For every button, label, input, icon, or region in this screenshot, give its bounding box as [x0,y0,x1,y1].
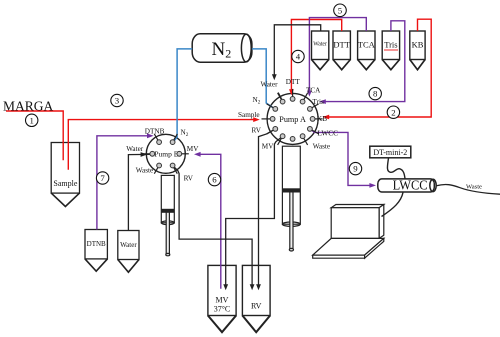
svg-text:5: 5 [338,5,343,15]
wire N2 blue to pump A [252,49,274,108]
container RV [242,265,270,332]
svg-text:Tris: Tris [313,98,325,106]
wire pump A RV to container black [259,129,276,287]
bottle Tris [382,31,399,70]
svg-text:Water: Water [126,145,144,153]
wire 5 TCA purple [309,18,366,93]
wire 9 LWCC purple [310,129,373,186]
svg-text:DT-mini-2: DT-mini-2 [373,148,407,157]
pump A ports [270,97,315,142]
svg-text:DTNB: DTNB [145,128,165,136]
svg-text:7: 7 [100,173,105,183]
cable DT-mini-2 to LWCC [387,158,405,179]
node 7 [96,172,108,184]
svg-text:Pump B: Pump B [154,150,178,159]
svg-text:1: 1 [29,115,33,125]
node 5 [334,4,347,17]
svg-text:Waste: Waste [136,166,153,174]
node 2 [387,106,399,118]
svg-text:DTNB: DTNB [87,240,106,248]
DT-mini-2 box [370,146,411,158]
waste tubing from LWCC [436,184,500,194]
svg-text:37°C: 37°C [214,305,231,314]
pump B port ticks [143,134,189,174]
pump A body [267,93,318,144]
cable LWCC to laptop [382,193,404,217]
svg-text:MV: MV [262,142,274,150]
container MV 37C [208,265,236,332]
N2 gas cylinder [192,34,252,62]
bottle KB [410,31,425,70]
svg-text:Water: Water [120,241,137,249]
svg-text:8: 8 [373,89,378,99]
svg-text:Sample: Sample [238,111,260,119]
laptop [313,205,384,259]
wire pump B RV to container black [173,166,253,288]
wire 7 DTNB purple [97,136,150,230]
svg-text:9: 9 [353,164,358,174]
svg-text:RV: RV [252,126,262,134]
svg-text:LWCC: LWCC [393,179,428,194]
pump B body [146,134,185,173]
svg-text:TCA: TCA [306,87,321,95]
wire DTT red [291,20,341,92]
syringe pump B [161,175,174,255]
svg-text:LWCC: LWCC [318,129,339,137]
bottle Water top [312,31,329,70]
bottle Water lower [118,231,139,273]
svg-text:RV: RV [251,302,262,311]
svg-text:Waste: Waste [313,142,330,150]
svg-text:DTT: DTT [333,40,350,50]
svg-text:Water: Water [313,42,327,48]
wire N2 blue to pump B [174,49,192,141]
bottle TCA [358,31,375,70]
svg-text:RV: RV [184,175,194,183]
svg-text:KB: KB [317,115,327,123]
svg-text:Tris: Tris [384,40,397,50]
wire 2 KB red loop [326,19,431,117]
svg-text:Water: Water [261,81,279,89]
node 3 [111,94,123,106]
pump A port ticks [262,89,323,145]
svg-text:KB: KB [412,40,424,50]
wire 3 sample to pump A red [68,120,256,170]
bottle DTT [333,31,350,70]
svg-text:Sample: Sample [53,179,77,188]
node 1 [26,114,38,126]
svg-text:MARGA: MARGA [3,99,54,114]
wire Water bottle to pump B black [128,154,149,230]
svg-text:Waste: Waste [466,184,482,191]
node 6 [208,173,220,185]
wire 6 MV purple [197,154,220,288]
wire MARGA red feed [6,111,63,160]
svg-text:4: 4 [296,52,301,62]
svg-text:MV: MV [216,296,229,305]
syringe pump A [282,146,300,251]
svg-text:3: 3 [115,96,120,106]
wire pump A MV to container black [226,136,283,287]
wire Water bottle to pump A black [274,25,320,76]
svg-text:6: 6 [212,175,217,185]
svg-text:DTT: DTT [286,78,301,86]
sample container [51,143,79,207]
LWCC cell [378,179,436,192]
bottle DTNB [85,230,107,272]
wire 8 Tris purple loop [323,21,405,102]
pump B ports [150,140,182,168]
svg-text:2: 2 [391,107,395,117]
svg-text:MV: MV [187,145,199,153]
svg-text:Pump A: Pump A [279,115,306,124]
svg-text:TCA: TCA [358,40,376,50]
node 4 [292,50,304,62]
node 8 [369,87,381,99]
node 9 [349,162,361,174]
